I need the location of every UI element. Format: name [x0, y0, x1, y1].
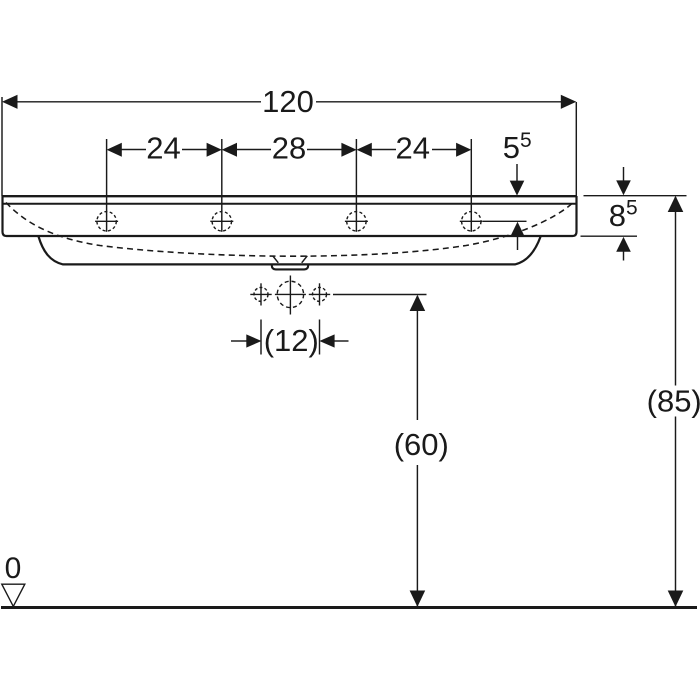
svg-text:(60): (60): [394, 427, 449, 462]
svg-text:24: 24: [146, 131, 180, 166]
svg-text:(12): (12): [264, 323, 319, 358]
svg-text:24: 24: [396, 131, 430, 166]
svg-text:28: 28: [272, 131, 306, 166]
svg-text:0: 0: [5, 552, 22, 585]
svg-text:(85): (85): [647, 383, 700, 418]
svg-text:120: 120: [262, 84, 314, 119]
